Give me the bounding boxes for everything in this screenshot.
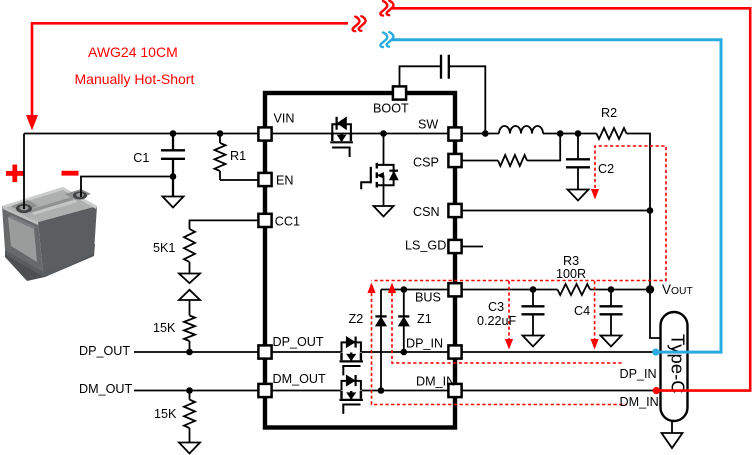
- ground of C4: [601, 336, 622, 347]
- battery minus symbol: [62, 171, 79, 176]
- svg-text:15K: 15K: [154, 407, 177, 421]
- svg-text:DP_OUT: DP_OUT: [273, 335, 324, 349]
- wire CC1 to 5K1: [190, 220, 259, 229]
- svg-text:R3: R3: [563, 254, 579, 268]
- arrow down at C3 ground: [505, 339, 513, 350]
- svg-text:15K: 15K: [153, 321, 176, 335]
- svg-text:BUS: BUS: [415, 290, 441, 304]
- wire battery plus to VIN node: [23, 134, 25, 210]
- wire DM_OUT external: [134, 390, 259, 392]
- svg-text:5K1: 5K1: [153, 241, 175, 255]
- arrow down at C2 ground: [591, 189, 599, 200]
- wire sense resistor to SW-inductor junction: [527, 134, 560, 161]
- svg-text:R2: R2: [601, 106, 617, 120]
- wire CSP pin to sense resistor: [462, 160, 499, 162]
- wire inductor to R2: [543, 133, 597, 135]
- wire dashed surge path via C2: [372, 146, 667, 281]
- capacitor C2: [566, 159, 590, 167]
- wire Z1 branch: [403, 290, 405, 353]
- node C1 bottom junction: [170, 173, 177, 180]
- capacitor C1: [161, 134, 185, 197]
- wire dashed surge via C3: [508, 281, 510, 339]
- svg-text:DP_OUT: DP_OUT: [79, 344, 130, 358]
- wire Z2 branch: [380, 290, 382, 391]
- wire CSN net: [462, 210, 651, 212]
- capacitor bootstrap: [441, 55, 449, 79]
- pin DM_IN: [448, 384, 461, 397]
- wire dashed surge via C4: [594, 281, 596, 339]
- pin EN: [258, 173, 271, 186]
- wire break marks red lead 1: [353, 16, 366, 31]
- node 15K2 DM_OUT junction: [186, 387, 193, 394]
- diode Z1: [398, 316, 409, 326]
- pin DP_IN: [448, 345, 461, 358]
- resistor 15K upper: [184, 316, 195, 342]
- svg-text:Z2: Z2: [349, 312, 364, 326]
- node Z2 bottom junction: [378, 387, 385, 394]
- wire 5K1 chain / 15K to DP_OUT: [189, 262, 191, 352]
- node C4 junction: [608, 286, 615, 293]
- wire cyan lead to DP_IN: [392, 40, 722, 352]
- node DM_IN Type-C junction: [653, 387, 660, 394]
- resistor R1: [215, 143, 226, 171]
- wire R1 to EN: [220, 179, 259, 181]
- wire low-side FET source to ground: [383, 185, 385, 206]
- battery plus symbol: [6, 165, 24, 183]
- pin SW: [448, 127, 461, 140]
- resistor 15K lower: [184, 400, 195, 428]
- wire R2 to output rail: [627, 134, 662, 339]
- wire BOOT to bootstrap cap to SW node: [400, 66, 486, 133]
- arrow up at outer loop: [367, 283, 375, 294]
- node boot-SW junction: [482, 130, 489, 137]
- node VOUT junction: [646, 285, 654, 293]
- wire 15K2 to ground: [189, 391, 191, 443]
- transistor Q2 low-side FET: [361, 163, 398, 189]
- pin LS_GD: [448, 240, 461, 253]
- svg-text:DM_OUT: DM_OUT: [79, 382, 132, 396]
- wire red battery hot-short lead: [32, 23, 348, 116]
- resistor current sense: [498, 155, 527, 166]
- svg-text:C2: C2: [598, 162, 614, 176]
- svg-text:CC1: CC1: [275, 215, 300, 229]
- node 15K DP_OUT junction: [186, 349, 193, 356]
- wire high-side FET to SW pin: [351, 133, 449, 135]
- node Z1 top junction: [401, 286, 408, 293]
- pin DP_OUT: [258, 345, 271, 358]
- diode Z2: [375, 316, 386, 326]
- svg-text:Type-C: Type-C: [668, 334, 689, 394]
- ground of low-side FET: [374, 206, 394, 217]
- svg-text:AWG24 10CM: AWG24 10CM: [88, 44, 178, 60]
- wire red return lead to DM_IN: [391, 8, 750, 390]
- ground arrow of 5K1: [179, 274, 200, 284]
- node CSN junction: [647, 207, 654, 214]
- ground of C2: [568, 190, 589, 201]
- svg-text:VIN: VIN: [274, 112, 295, 126]
- resistor 5K1: [184, 229, 195, 262]
- up arrow above 15K: [179, 290, 200, 300]
- svg-text:0.22uF: 0.22uF: [477, 314, 517, 328]
- svg-text:R1: R1: [230, 149, 246, 163]
- node C1 top junction: [170, 130, 177, 137]
- wire DP_OUT external: [134, 351, 259, 353]
- pin DM_OUT: [258, 384, 271, 397]
- svg-text:C4: C4: [574, 304, 590, 318]
- svg-text:DM_OUT: DM_OUT: [273, 372, 326, 386]
- wire BUS pin to VOUT node: [462, 289, 651, 291]
- wire DM_IN external: [462, 390, 661, 392]
- wire LS_GD stub: [462, 246, 484, 248]
- arrow down at C4 ground: [591, 339, 599, 350]
- svg-text:SW: SW: [418, 117, 438, 131]
- svg-text:CSP: CSP: [413, 156, 439, 170]
- wire DM internal: [272, 390, 449, 392]
- wire C4 branch: [610, 290, 612, 336]
- transistor Q1 high-side FET: [330, 117, 353, 157]
- ground of C3: [523, 336, 544, 347]
- wire DP_IN external: [462, 351, 661, 353]
- svg-text:DM_IN: DM_IN: [620, 395, 659, 409]
- svg-text:Manually Hot-Short: Manually Hot-Short: [75, 71, 195, 87]
- node C2 junction: [575, 130, 582, 137]
- ground of Type-C: [671, 421, 673, 433]
- svg-text:100R: 100R: [556, 267, 586, 281]
- node Z1 bottom junction: [401, 349, 408, 356]
- pin CC1: [258, 214, 271, 227]
- svg-text:BOOT: BOOT: [373, 101, 409, 115]
- node DP_IN Type-C junction: [652, 349, 659, 356]
- wire DP internal: [272, 351, 449, 353]
- wire SW node to inductor: [462, 133, 500, 135]
- capacitor C3: [522, 306, 545, 314]
- node SW internal junction: [380, 130, 387, 137]
- svg-text:Z1: Z1: [417, 312, 432, 326]
- wire C2 branch: [577, 134, 579, 190]
- wire BUS internal: [381, 289, 449, 291]
- battery BT1: [2, 187, 97, 281]
- transistor Q3 DP switch: [340, 337, 363, 376]
- arrow red onto VIN line: [26, 115, 38, 131]
- wire low-side FET drain: [383, 134, 385, 165]
- pin BOOT: [393, 86, 406, 99]
- wire break marks cyan lead: [380, 32, 393, 47]
- svg-text:CSN: CSN: [413, 205, 440, 219]
- node R1 top junction: [217, 130, 224, 137]
- wire battery minus to C1 ground node: [81, 177, 173, 198]
- svg-text:C1: C1: [133, 151, 149, 165]
- wire VIN net: [24, 133, 259, 135]
- wire dashed surge outer loop: [372, 293, 628, 405]
- op-amp U1 converter IC body: [265, 93, 455, 428]
- resistor R3: [558, 284, 591, 295]
- svg-text:DP_IN: DP_IN: [620, 367, 657, 381]
- ground of 15K lower: [179, 443, 200, 454]
- inductor L1: [499, 126, 543, 133]
- arrow up at inner loop: [388, 283, 396, 294]
- svg-text:C3: C3: [488, 300, 504, 314]
- svg-text:DP_IN: DP_IN: [406, 336, 443, 350]
- pin CSP: [448, 154, 461, 167]
- pin BUS: [448, 283, 461, 296]
- pin CSN: [448, 204, 461, 217]
- wire C3 branch: [532, 290, 534, 336]
- node inductor-CSP junction: [557, 130, 564, 137]
- wire VIN pin to high-side FET: [272, 133, 352, 135]
- resistor R2: [597, 128, 627, 139]
- svg-text:DM_IN: DM_IN: [416, 374, 455, 388]
- svg-text:VOUT: VOUT: [662, 282, 693, 297]
- wire break marks red lead 2: [380, 1, 393, 16]
- wire dashed surge inner loop: [392, 293, 622, 363]
- Type-C connector: [661, 312, 688, 421]
- svg-text:LS_GD: LS_GD: [405, 239, 446, 253]
- capacitor C4: [600, 306, 623, 314]
- node C3 junction: [530, 286, 537, 293]
- transistor Q4 DM switch: [340, 375, 363, 414]
- pin VIN: [258, 127, 271, 140]
- svg-text:EN: EN: [276, 173, 294, 187]
